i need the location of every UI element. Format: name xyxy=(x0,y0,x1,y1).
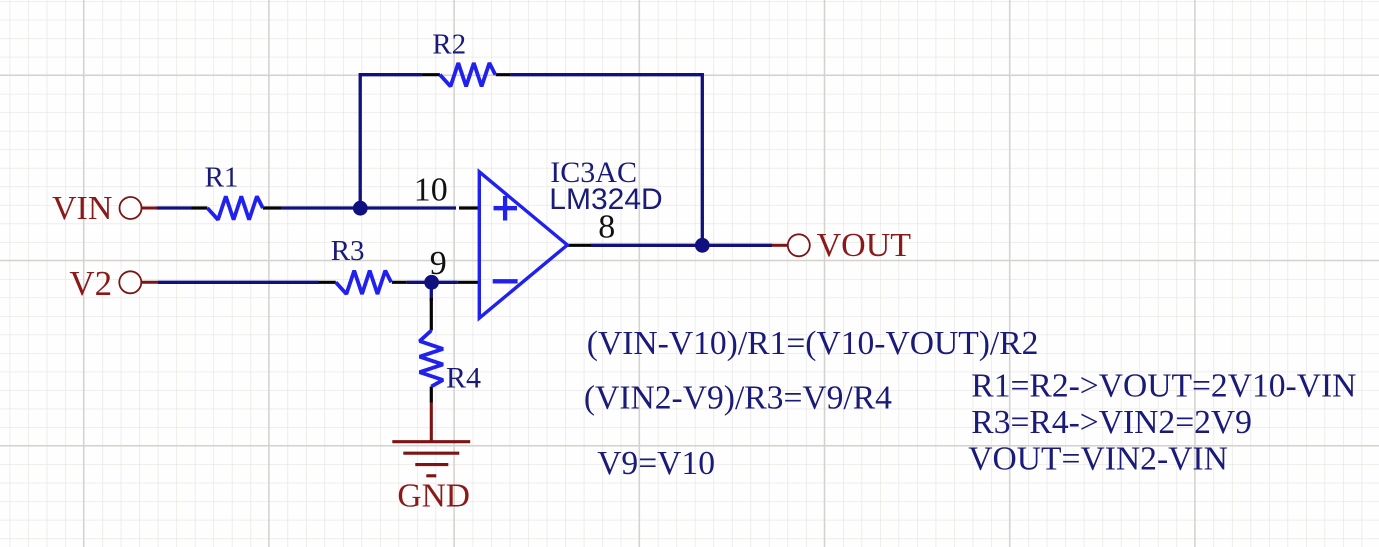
svg-text:(VIN2-V9)/R3=V9/R4: (VIN2-V9)/R3=V9/R4 xyxy=(584,380,892,417)
svg-text:VIN: VIN xyxy=(52,190,112,227)
svg-text:9: 9 xyxy=(430,245,447,282)
svg-text:R4: R4 xyxy=(446,361,481,394)
svg-text:10: 10 xyxy=(414,171,448,208)
svg-text:GND: GND xyxy=(397,478,470,515)
svg-text:R1: R1 xyxy=(205,162,239,194)
svg-text:8: 8 xyxy=(598,208,615,245)
svg-text:(VIN-V10)/R1=(V10-VOUT)/R2: (VIN-V10)/R1=(V10-VOUT)/R2 xyxy=(587,325,1039,362)
svg-text:V9=V10: V9=V10 xyxy=(597,445,715,482)
svg-text:VOUT=VIN2-VIN: VOUT=VIN2-VIN xyxy=(968,441,1228,478)
svg-text:R1=R2->VOUT=2V10-VIN: R1=R2->VOUT=2V10-VIN xyxy=(971,367,1356,404)
svg-text:R3: R3 xyxy=(331,235,365,267)
svg-text:V2: V2 xyxy=(69,264,112,303)
svg-text:R2: R2 xyxy=(432,29,466,61)
svg-text:VOUT: VOUT xyxy=(817,227,912,264)
svg-text:R3=R4->VIN2=2V9: R3=R4->VIN2=2V9 xyxy=(971,404,1252,441)
